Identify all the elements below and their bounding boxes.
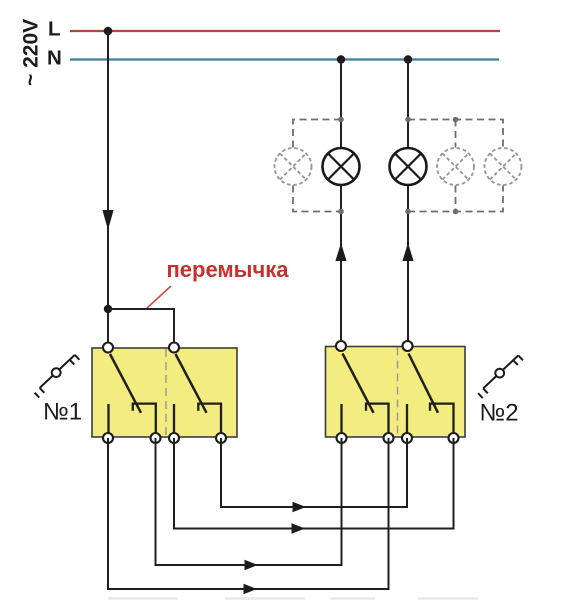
SA2 pole1 contact bracket [366, 404, 389, 438]
dashed wire top left lamp group [293, 120, 341, 148]
arrow up on lamp column A [335, 243, 346, 261]
arrow on W4 [244, 584, 258, 594]
dashed wire top right lamp group [408, 120, 503, 148]
SA2 pole2 contact bracket [430, 404, 454, 438]
wire W3 SA1.b2 to SA2.b1 [156, 438, 342, 565]
gray node dashed-top on column B [405, 117, 411, 123]
arrow up on lamp column B [402, 243, 413, 261]
SA1 terminal bottom4 [216, 433, 226, 443]
gray node dashed-bottom on column A [338, 209, 344, 215]
watermark remnant bottom [108, 597, 478, 600]
SA1 pole1 post [107, 404, 109, 438]
gray node dashed-top on column A [338, 117, 344, 123]
gray node dashed-bottom on column B [405, 209, 411, 215]
switch icon SA2 [478, 355, 523, 398]
lamp HL5 (dashed optional, far right) [485, 148, 522, 185]
SA1 pole2 contact bracket [198, 404, 221, 438]
leader line for jumper label [147, 286, 171, 308]
lamp HL4 (dashed optional, right of column B) [437, 148, 474, 185]
dashed wire bottom right lamp group [408, 186, 503, 212]
SA2 terminal bottom2 [384, 433, 394, 443]
SA2 terminal bottom1 [337, 433, 347, 443]
SA1 pole1 contact bracket [133, 404, 156, 438]
dashed wire bottom left lamp group [293, 186, 341, 212]
SA2 pole1 post [340, 404, 342, 438]
lamp HL3 (dashed optional, left of column A) [275, 148, 312, 185]
SA2 terminal top1 [336, 341, 346, 351]
wire lamp column B [407, 60, 409, 347]
SA1 terminal bottom3 [169, 433, 179, 443]
wire L rail [70, 30, 500, 32]
wire W4 SA1.b1 to SA2.b2 [108, 438, 389, 589]
SA1 pole1 lever [110, 354, 141, 413]
switch icon SA1 [35, 355, 80, 398]
arrow on W2 [292, 523, 306, 533]
SA2 terminal top2 [403, 341, 413, 351]
svg-text:№1: №1 [43, 399, 82, 426]
switch SA2 body [326, 347, 466, 438]
wire W1 SA1.b4 to SA2.b3 [221, 438, 407, 507]
wire N rail [70, 58, 499, 60]
dashed divider SA1 [165, 349, 167, 436]
dashed stub bottom lamp HL4 [455, 186, 457, 212]
node jumper junction [104, 305, 112, 313]
SA2 terminal bottom3 [402, 433, 412, 443]
gray node dashed-bottom HL4 [453, 209, 459, 215]
SA2 terminal bottom4 [449, 433, 459, 443]
SA1 pole2 post [173, 404, 175, 438]
SA2 pole1 lever [343, 354, 374, 413]
node on N rail (lamp wire B) [404, 55, 412, 63]
svg-text:перемычка: перемычка [167, 257, 290, 282]
svg-text:N: N [47, 47, 62, 70]
SA1 terminal bottom2 [151, 433, 161, 443]
svg-text:~ 220V: ~ 220V [20, 19, 43, 86]
dashed stub top lamp HL4 [455, 120, 457, 148]
wire W2 SA1.b3 to SA2.b4 [174, 438, 454, 529]
SA1 pole2 lever [176, 354, 207, 413]
wire lamp column A [340, 60, 342, 347]
arrow on W3 [245, 560, 259, 570]
node on N rail (lamp wire A) [337, 55, 345, 63]
SA2 pole2 lever [409, 354, 439, 413]
SA1 terminal bottom1 [103, 433, 113, 443]
node on L rail [104, 27, 113, 36]
arrow on W1 [293, 502, 307, 512]
lamp HL1 (solid, column A) [323, 148, 360, 185]
svg-text:L: L [48, 18, 61, 41]
svg-text:№2: №2 [480, 400, 519, 427]
dashed divider SA2 [397, 348, 399, 437]
switch SA1 body [92, 348, 237, 437]
gray node dashed-top HL4 [453, 117, 459, 123]
wire from L to switch 1 common [107, 31, 109, 348]
SA2 pole2 post [406, 404, 408, 438]
SA1 terminal top2 [169, 343, 179, 353]
SA1 terminal top1 [103, 343, 113, 353]
arrow down on L drop wire [102, 210, 113, 230]
lamp HL2 (solid, column B) [390, 148, 427, 185]
wire jumper [108, 309, 174, 348]
